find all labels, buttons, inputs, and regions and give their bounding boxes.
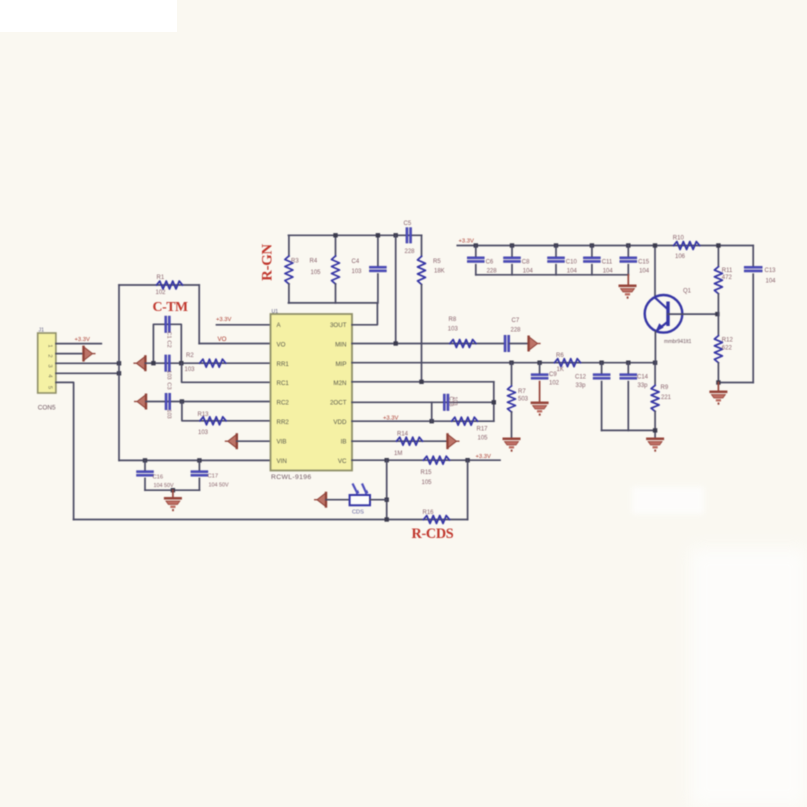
svg-text:+3.3V: +3.3V bbox=[459, 239, 474, 245]
svg-text:C5: C5 bbox=[404, 221, 412, 227]
svg-text:+3.3V: +3.3V bbox=[216, 317, 231, 323]
wire RR1 line bbox=[145, 362, 270, 364]
resistor R12 bbox=[717, 314, 719, 335]
wire CDS riser bbox=[386, 460, 388, 519]
svg-text:103: 103 bbox=[166, 370, 172, 379]
wire bottom bus bbox=[74, 519, 468, 521]
svg-text:103: 103 bbox=[448, 326, 459, 332]
node ground tap bbox=[171, 488, 175, 492]
wire RR2 drop and line bbox=[182, 402, 271, 421]
ground arrow at CDS bbox=[325, 492, 327, 508]
svg-text:R5: R5 bbox=[433, 259, 441, 265]
resistor R2 bbox=[200, 359, 226, 367]
wire top rail of R3 R4 C4 bbox=[289, 234, 422, 236]
node R5 bottom on M2N bbox=[419, 380, 423, 384]
transistor Q1 bbox=[645, 295, 683, 333]
node CDS line junction bbox=[385, 498, 389, 502]
svg-text:+3.3V: +3.3V bbox=[383, 416, 398, 422]
resistor R16 bbox=[424, 516, 450, 524]
svg-text:+3.3V: +3.3V bbox=[75, 337, 90, 343]
svg-text:1M: 1M bbox=[394, 451, 402, 457]
capacitor C10 bbox=[554, 243, 558, 247]
svg-text:VIB: VIB bbox=[277, 438, 287, 445]
node C17 tap bbox=[197, 458, 201, 462]
capacitor C7 bbox=[504, 335, 506, 352]
node C1-right bbox=[179, 361, 183, 365]
white patch mid-right bbox=[632, 487, 704, 514]
svg-text:33p: 33p bbox=[638, 383, 649, 389]
svg-text:103: 103 bbox=[352, 269, 363, 275]
svg-text:CDS: CDS bbox=[352, 510, 364, 516]
svg-text:R3: R3 bbox=[291, 259, 299, 265]
resistor R5 bbox=[421, 235, 423, 256]
capacitor C16 bbox=[144, 460, 146, 471]
capacitor C12 bbox=[601, 363, 603, 375]
ground under R7 bbox=[503, 438, 521, 441]
svg-text:18K: 18K bbox=[434, 269, 445, 275]
svg-text:C9: C9 bbox=[549, 372, 557, 378]
capacitor C5 bbox=[406, 228, 408, 244]
wire C12 C14 bottom rail bbox=[602, 429, 656, 431]
node pin3 junction bbox=[117, 361, 121, 365]
svg-text:RC1: RC1 bbox=[277, 380, 290, 387]
svg-text:104: 104 bbox=[603, 269, 614, 275]
svg-text:R-CDS: R-CDS bbox=[412, 526, 454, 542]
node bottom bus CDS riser bbox=[385, 517, 389, 521]
node R7 tap bbox=[509, 361, 513, 365]
svg-text:503: 503 bbox=[518, 397, 529, 403]
capacitor C1 bbox=[165, 316, 167, 333]
wire C16 C17 bottom rail bbox=[145, 489, 199, 491]
ground arrow at VIB bbox=[236, 433, 238, 449]
resistor R14 bbox=[397, 437, 423, 445]
node RC2 junction bbox=[180, 399, 184, 403]
resistor R13 bbox=[200, 417, 226, 425]
capacitor C15 bbox=[626, 243, 630, 247]
wire IB line bbox=[352, 440, 446, 442]
svg-text:1K: 1K bbox=[557, 367, 564, 373]
svg-text:228: 228 bbox=[511, 328, 522, 334]
svg-text:33p: 33p bbox=[576, 383, 587, 389]
svg-text:VDD: VDD bbox=[333, 419, 347, 426]
node R9 tap bbox=[653, 361, 657, 365]
svg-text:104: 104 bbox=[639, 269, 650, 275]
svg-text:104 50V: 104 50V bbox=[209, 483, 229, 489]
resistor R7 bbox=[511, 363, 513, 385]
IC U1 RCWL-9196 bbox=[271, 314, 353, 471]
resistor R11 bbox=[717, 246, 719, 267]
white corner patch bbox=[0, 0, 177, 32]
svg-text:103: 103 bbox=[198, 430, 209, 436]
wire CDS left bbox=[326, 499, 350, 501]
ground under C9 bbox=[531, 402, 549, 405]
wire loop right vertical bbox=[493, 382, 495, 421]
svg-text:R13: R13 bbox=[198, 412, 210, 418]
svg-text:103: 103 bbox=[166, 409, 172, 418]
svg-text:R6: R6 bbox=[556, 353, 564, 359]
node base junction bbox=[715, 312, 719, 316]
svg-text:228: 228 bbox=[487, 269, 498, 275]
svg-text:C11: C11 bbox=[602, 259, 613, 265]
svg-text:5: 5 bbox=[47, 386, 53, 389]
svg-text:J1: J1 bbox=[39, 328, 45, 334]
node C1-left bbox=[151, 361, 155, 365]
resistor R3 bbox=[288, 235, 290, 256]
wire C7 to ground arrow bbox=[510, 343, 528, 345]
svg-text:1: 1 bbox=[47, 344, 53, 347]
ground under R12 bbox=[717, 383, 719, 391]
svg-text:2: 2 bbox=[47, 354, 53, 357]
wire J1 pin5 to bottom bus bbox=[56, 382, 74, 519]
svg-text:C17: C17 bbox=[208, 474, 219, 480]
svg-text:103: 103 bbox=[452, 397, 458, 406]
wire 2OCT line bbox=[352, 401, 494, 403]
node pin4 junction bbox=[117, 371, 121, 375]
svg-text:104: 104 bbox=[567, 269, 578, 275]
node R4 top bbox=[333, 233, 337, 237]
svg-text:104: 104 bbox=[766, 278, 777, 284]
connector J1 CON5 bbox=[38, 333, 56, 393]
svg-text:RCWL-9196: RCWL-9196 bbox=[271, 474, 312, 481]
svg-text:R4: R4 bbox=[310, 259, 318, 265]
node MIN riser bottom bbox=[394, 341, 398, 345]
svg-text:C15: C15 bbox=[638, 259, 650, 265]
ground under C15 bbox=[627, 275, 629, 284]
ground under R9 bbox=[646, 438, 664, 441]
node C16 tap bbox=[143, 458, 147, 462]
wire A pin to +3.3V port bbox=[217, 324, 271, 326]
svg-text:VIN: VIN bbox=[277, 458, 287, 465]
wire emitter down bbox=[654, 332, 656, 363]
svg-text:C3: C3 bbox=[166, 382, 172, 389]
resistor R6 bbox=[555, 359, 581, 367]
svg-text:103: 103 bbox=[185, 367, 196, 373]
svg-text:R10: R10 bbox=[673, 236, 685, 242]
svg-text:RR2: RR2 bbox=[277, 419, 290, 426]
ground arrow at C2 bbox=[144, 355, 146, 371]
node bottom rail R9 bbox=[653, 428, 657, 432]
svg-text:C4: C4 bbox=[352, 259, 360, 265]
svg-text:104: 104 bbox=[523, 269, 534, 275]
ground under C16 C17 bbox=[172, 490, 174, 497]
capacitor C2 bbox=[165, 355, 167, 372]
svg-text:RC2: RC2 bbox=[277, 400, 290, 407]
wire MIN line bbox=[352, 343, 504, 345]
wire RC2 line bbox=[146, 401, 271, 403]
capacitor C4 bbox=[377, 235, 379, 267]
node C9 tap bbox=[537, 361, 541, 365]
wire +3.3V decoupling rail bbox=[457, 245, 753, 247]
capacitor C8 bbox=[510, 243, 514, 247]
capacitor C11 bbox=[590, 243, 594, 247]
resistor R1 bbox=[157, 281, 183, 289]
wire M2N line bbox=[352, 381, 494, 383]
capacitor C14 bbox=[627, 363, 629, 375]
wire RC1 drop and line bbox=[182, 363, 271, 382]
svg-text:3OUT: 3OUT bbox=[330, 322, 347, 329]
node R11 top bbox=[716, 243, 720, 247]
svg-text:C16: C16 bbox=[153, 475, 164, 481]
wire C1 bracket bbox=[153, 324, 181, 363]
svg-text:C13: C13 bbox=[765, 268, 777, 274]
wire VIB bbox=[237, 440, 271, 442]
svg-text:U1: U1 bbox=[272, 309, 279, 315]
capacitor C9 bbox=[539, 363, 541, 375]
wire MIP line bbox=[352, 362, 655, 364]
wire decoupling bottom rail bbox=[476, 274, 629, 276]
resistor R8 bbox=[450, 340, 476, 348]
svg-text:3: 3 bbox=[47, 364, 53, 367]
svg-text:R8: R8 bbox=[449, 317, 457, 323]
node R15 right corner bbox=[465, 458, 469, 462]
wire J1 pin3 bbox=[56, 362, 119, 364]
svg-text:R2: R2 bbox=[186, 353, 194, 359]
svg-text:102: 102 bbox=[549, 381, 560, 387]
svg-text:105: 105 bbox=[478, 436, 489, 442]
wire base line bbox=[668, 313, 717, 315]
resistor R10 bbox=[674, 242, 700, 250]
node C12 tap bbox=[599, 361, 603, 365]
capacitor C13 bbox=[752, 246, 754, 268]
capacitor C18 bbox=[443, 394, 445, 411]
ground arrow at C3 bbox=[145, 394, 147, 410]
node MIN riser top bbox=[394, 233, 398, 237]
resistor R17 bbox=[452, 417, 478, 425]
wire J1 pin4 bbox=[56, 372, 119, 374]
svg-text:Q1: Q1 bbox=[683, 288, 692, 294]
svg-text:R14: R14 bbox=[397, 432, 409, 438]
svg-text:MIP: MIP bbox=[335, 361, 346, 368]
wire MIN riser bbox=[395, 235, 397, 343]
svg-text:C1: C1 bbox=[166, 331, 172, 338]
svg-text:VO: VO bbox=[277, 341, 286, 348]
svg-text:R9: R9 bbox=[661, 385, 669, 391]
svg-text:CON5: CON5 bbox=[38, 405, 56, 412]
wire VIN line bbox=[119, 459, 270, 461]
svg-text:C14: C14 bbox=[637, 374, 649, 380]
wire VC corner down bbox=[467, 460, 469, 519]
svg-text:105: 105 bbox=[311, 270, 322, 276]
svg-text:+3.3V: +3.3V bbox=[476, 454, 491, 460]
svg-text:228: 228 bbox=[405, 249, 416, 255]
svg-text:M2N: M2N bbox=[333, 380, 346, 387]
svg-text:102: 102 bbox=[156, 290, 167, 296]
svg-text:R16: R16 bbox=[423, 510, 435, 516]
wire 3OUT stub and up bbox=[352, 303, 377, 325]
photoresistor CDS bbox=[350, 495, 370, 505]
capacitor C17 bbox=[198, 460, 200, 471]
wire collector riser bbox=[654, 246, 656, 299]
svg-text:C-TM: C-TM bbox=[153, 299, 189, 314]
svg-text:472: 472 bbox=[722, 275, 733, 281]
power arrow at J1 pin2 bbox=[82, 346, 84, 362]
node R12 bottom bbox=[716, 380, 720, 384]
svg-text:106: 106 bbox=[675, 254, 686, 260]
svg-text:C10: C10 bbox=[566, 259, 578, 265]
svg-text:R17: R17 bbox=[477, 427, 489, 433]
svg-text:R12: R12 bbox=[722, 338, 734, 344]
wire left vertical R1/pin3/pin4/VIN bbox=[118, 285, 120, 460]
node collector on rail bbox=[653, 243, 657, 247]
svg-text:C6: C6 bbox=[486, 259, 494, 265]
wire R1 right down to VO bbox=[198, 285, 200, 344]
white patch bottom-right bbox=[690, 548, 807, 807]
svg-text:R15: R15 bbox=[421, 470, 433, 476]
ground arrow at C7 bbox=[527, 336, 529, 352]
capacitor C3 bbox=[165, 393, 167, 410]
wire VC line bbox=[352, 459, 500, 461]
resistor R15 bbox=[424, 456, 450, 464]
svg-text:105: 105 bbox=[422, 480, 433, 486]
wire loop left vertical bbox=[431, 402, 433, 421]
ground arrow at R14 bbox=[446, 433, 448, 449]
resistor R9 bbox=[654, 363, 656, 384]
node C14 tap bbox=[626, 361, 630, 365]
node loop left bbox=[430, 419, 434, 423]
svg-text:VO: VO bbox=[218, 336, 227, 343]
wire CDS right bbox=[370, 499, 387, 501]
wire J1 pin2 bbox=[56, 353, 82, 355]
wire J1 pin1 +3.3V bbox=[56, 343, 101, 345]
wire bottom rail of R3 R4 C4 bbox=[289, 302, 378, 304]
wire R1 branch top bbox=[119, 284, 199, 286]
svg-text:IB: IB bbox=[341, 438, 347, 445]
svg-text:C7: C7 bbox=[512, 318, 520, 324]
svg-text:RR1: RR1 bbox=[277, 361, 290, 368]
svg-text:R-GN: R-GN bbox=[260, 244, 276, 281]
svg-text:221: 221 bbox=[661, 395, 672, 401]
svg-text:MIN: MIN bbox=[335, 341, 346, 348]
svg-text:mmbr941lt1: mmbr941lt1 bbox=[664, 339, 692, 345]
svg-text:C12: C12 bbox=[575, 374, 587, 380]
svg-text:C2: C2 bbox=[166, 340, 172, 347]
svg-text:622: 622 bbox=[722, 346, 733, 352]
wire VDD line with R17 bbox=[352, 420, 494, 422]
resistor R4 bbox=[335, 235, 337, 256]
node C4 top bbox=[376, 233, 380, 237]
svg-text:VC: VC bbox=[338, 458, 347, 465]
svg-text:R7: R7 bbox=[518, 389, 526, 395]
svg-text:C8: C8 bbox=[522, 259, 530, 265]
node loop right on 2OCT bbox=[492, 400, 496, 404]
svg-text:R11: R11 bbox=[722, 268, 733, 274]
svg-text:2OCT: 2OCT bbox=[330, 400, 347, 407]
node CDS riser top bbox=[385, 458, 389, 462]
wire R12 C13 bottom bbox=[718, 382, 753, 384]
capacitor C6 bbox=[474, 243, 478, 247]
wire VO line to IC bbox=[199, 343, 270, 345]
svg-text:R1: R1 bbox=[157, 275, 165, 281]
